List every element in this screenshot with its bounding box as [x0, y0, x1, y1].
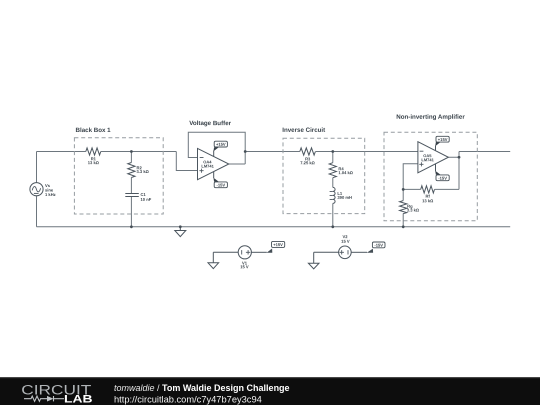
node Rg rail junction dot: [402, 225, 405, 228]
Black Box 1 dashed border: [74, 138, 163, 214]
svg-text:-15V: -15V: [216, 182, 225, 187]
node A junction dot: [130, 150, 133, 153]
ground symbol at rail: [175, 227, 186, 237]
svg-text:Black Box 1: Black Box 1: [76, 127, 112, 134]
op-amp OA4: [198, 148, 229, 179]
wire buffer feedback loop: [188, 132, 245, 164]
wire R3 to node B: [316, 151, 333, 153]
node NI feedback junction dot: [402, 188, 405, 191]
node C1 rail junction dot: [130, 225, 133, 228]
wire V1 left lead: [213, 251, 238, 253]
resistor Rf: [421, 186, 435, 193]
Inverse Circuit dashed border: [283, 138, 365, 213]
svg-text:Voltage Buffer: Voltage Buffer: [189, 120, 231, 127]
source V2: [339, 246, 352, 259]
source Vs: [30, 183, 43, 196]
resistor Rg: [400, 201, 407, 214]
+15V flag at OA4: [214, 141, 227, 147]
-15V flag at OA4: [214, 182, 227, 188]
svg-text:13 kΩ: 13 kΩ: [422, 198, 433, 203]
node NI output junction dot: [458, 156, 461, 159]
svg-text:1.04 kΩ: 1.04 kΩ: [338, 170, 353, 175]
svg-text:Non-inverting Amplifier: Non-inverting Amplifier: [396, 114, 465, 121]
svg-text:15 V: 15 V: [240, 264, 249, 269]
logo wire with resistor and diode: [24, 396, 64, 401]
wire R1 to node A: [101, 151, 132, 153]
wire R2 to C1: [130, 178, 132, 194]
wire jog down to buffer + input: [176, 152, 197, 171]
wire buffer output apex: [229, 163, 245, 165]
svg-text:+15V: +15V: [438, 137, 448, 142]
svg-text:http://circuitlab.com/c7y47b7e: http://circuitlab.com/c7y47b7ey3c94: [114, 395, 262, 405]
wire V1 right lead: [251, 251, 266, 253]
wire bottom rail: [37, 226, 511, 228]
svg-text:390 mH: 390 mH: [337, 195, 352, 200]
resistor R1: [86, 148, 101, 155]
resistor R3: [300, 148, 316, 155]
wire Rg bottom lead: [402, 213, 404, 226]
svg-text:-15V: -15V: [438, 176, 447, 181]
wire V2 right lead: [351, 251, 367, 253]
svg-text:+15V: +15V: [216, 142, 226, 147]
wire NI feedback row right: [435, 188, 459, 190]
source V1: [238, 246, 251, 259]
wire R4 top lead: [332, 152, 334, 163]
svg-text:10 nF: 10 nF: [140, 197, 151, 202]
svg-text:1 kHz: 1 kHz: [45, 192, 56, 197]
wire row buffer to R3: [245, 151, 300, 153]
wire Vs top lead: [36, 152, 38, 183]
V2 flag pointer wedge: [367, 249, 373, 253]
wire NI feedback row left: [403, 188, 421, 190]
svg-text:3.3 kΩ: 3.3 kΩ: [407, 207, 419, 212]
svg-text:LM741: LM741: [201, 164, 214, 169]
svg-text:+15V: +15V: [273, 242, 283, 247]
wire NI output row: [459, 151, 510, 153]
-15V flag at OA5: [436, 175, 449, 181]
wire R2 top lead: [130, 152, 132, 163]
inductor L1: [330, 187, 335, 203]
wire NI amp + input: [403, 164, 418, 190]
wire V2 left lead: [314, 251, 339, 253]
wire row node B to NI amp - input: [333, 151, 418, 153]
node buffer output junction dot: [244, 150, 247, 153]
svg-text:13 kΩ: 13 kΩ: [88, 160, 99, 165]
op-amp OA5 V- lead: [435, 164, 440, 175]
-15V flag at V2: [372, 242, 385, 248]
op-amp OA5: [418, 142, 449, 173]
svg-text:7.25 kΩ: 7.25 kΩ: [300, 160, 315, 165]
node B junction dot: [331, 150, 334, 153]
wire NI output vertical: [458, 152, 460, 190]
wire NI amp output apex: [448, 156, 459, 158]
wire Vs bottom lead: [36, 196, 38, 227]
svg-text:LAB: LAB: [64, 393, 93, 405]
ground symbol for V2: [308, 252, 319, 269]
svg-text:15 V: 15 V: [341, 239, 350, 244]
svg-text:tomwaldie / Tom Waldie Design: tomwaldie / Tom Waldie Design Challenge: [114, 383, 290, 393]
svg-text:Inverse Circuit: Inverse Circuit: [282, 127, 325, 134]
node L1 rail junction dot: [331, 225, 334, 228]
svg-text:-15V: -15V: [374, 243, 383, 248]
capacitor C1: [125, 194, 139, 197]
Non-inverting Amplifier dashed border: [384, 132, 477, 221]
resistor R4: [329, 163, 336, 178]
V1 flag pointer wedge: [267, 249, 273, 253]
wire C1 bottom lead: [130, 197, 132, 227]
+15V flag at V1: [272, 241, 285, 247]
svg-text:LM741: LM741: [421, 157, 434, 162]
op-amp OA4 V+ lead: [213, 147, 218, 157]
node ground rail junction dot: [179, 225, 182, 228]
ground symbol for V1: [208, 252, 219, 268]
wire L1 bottom lead: [332, 203, 334, 226]
resistor R2: [128, 163, 135, 178]
op-amp OA5 V+ lead: [435, 142, 440, 151]
svg-text:3.3 kΩ: 3.3 kΩ: [137, 169, 149, 174]
wire node A to jog: [131, 151, 176, 153]
footer bar: [0, 377, 540, 405]
wire Rg top lead: [402, 189, 404, 200]
+15V flag at OA5: [436, 136, 449, 142]
wire main row to R1: [37, 151, 86, 153]
op-amp OA4 V- lead: [213, 171, 218, 181]
wire R4 to L1: [332, 178, 334, 188]
